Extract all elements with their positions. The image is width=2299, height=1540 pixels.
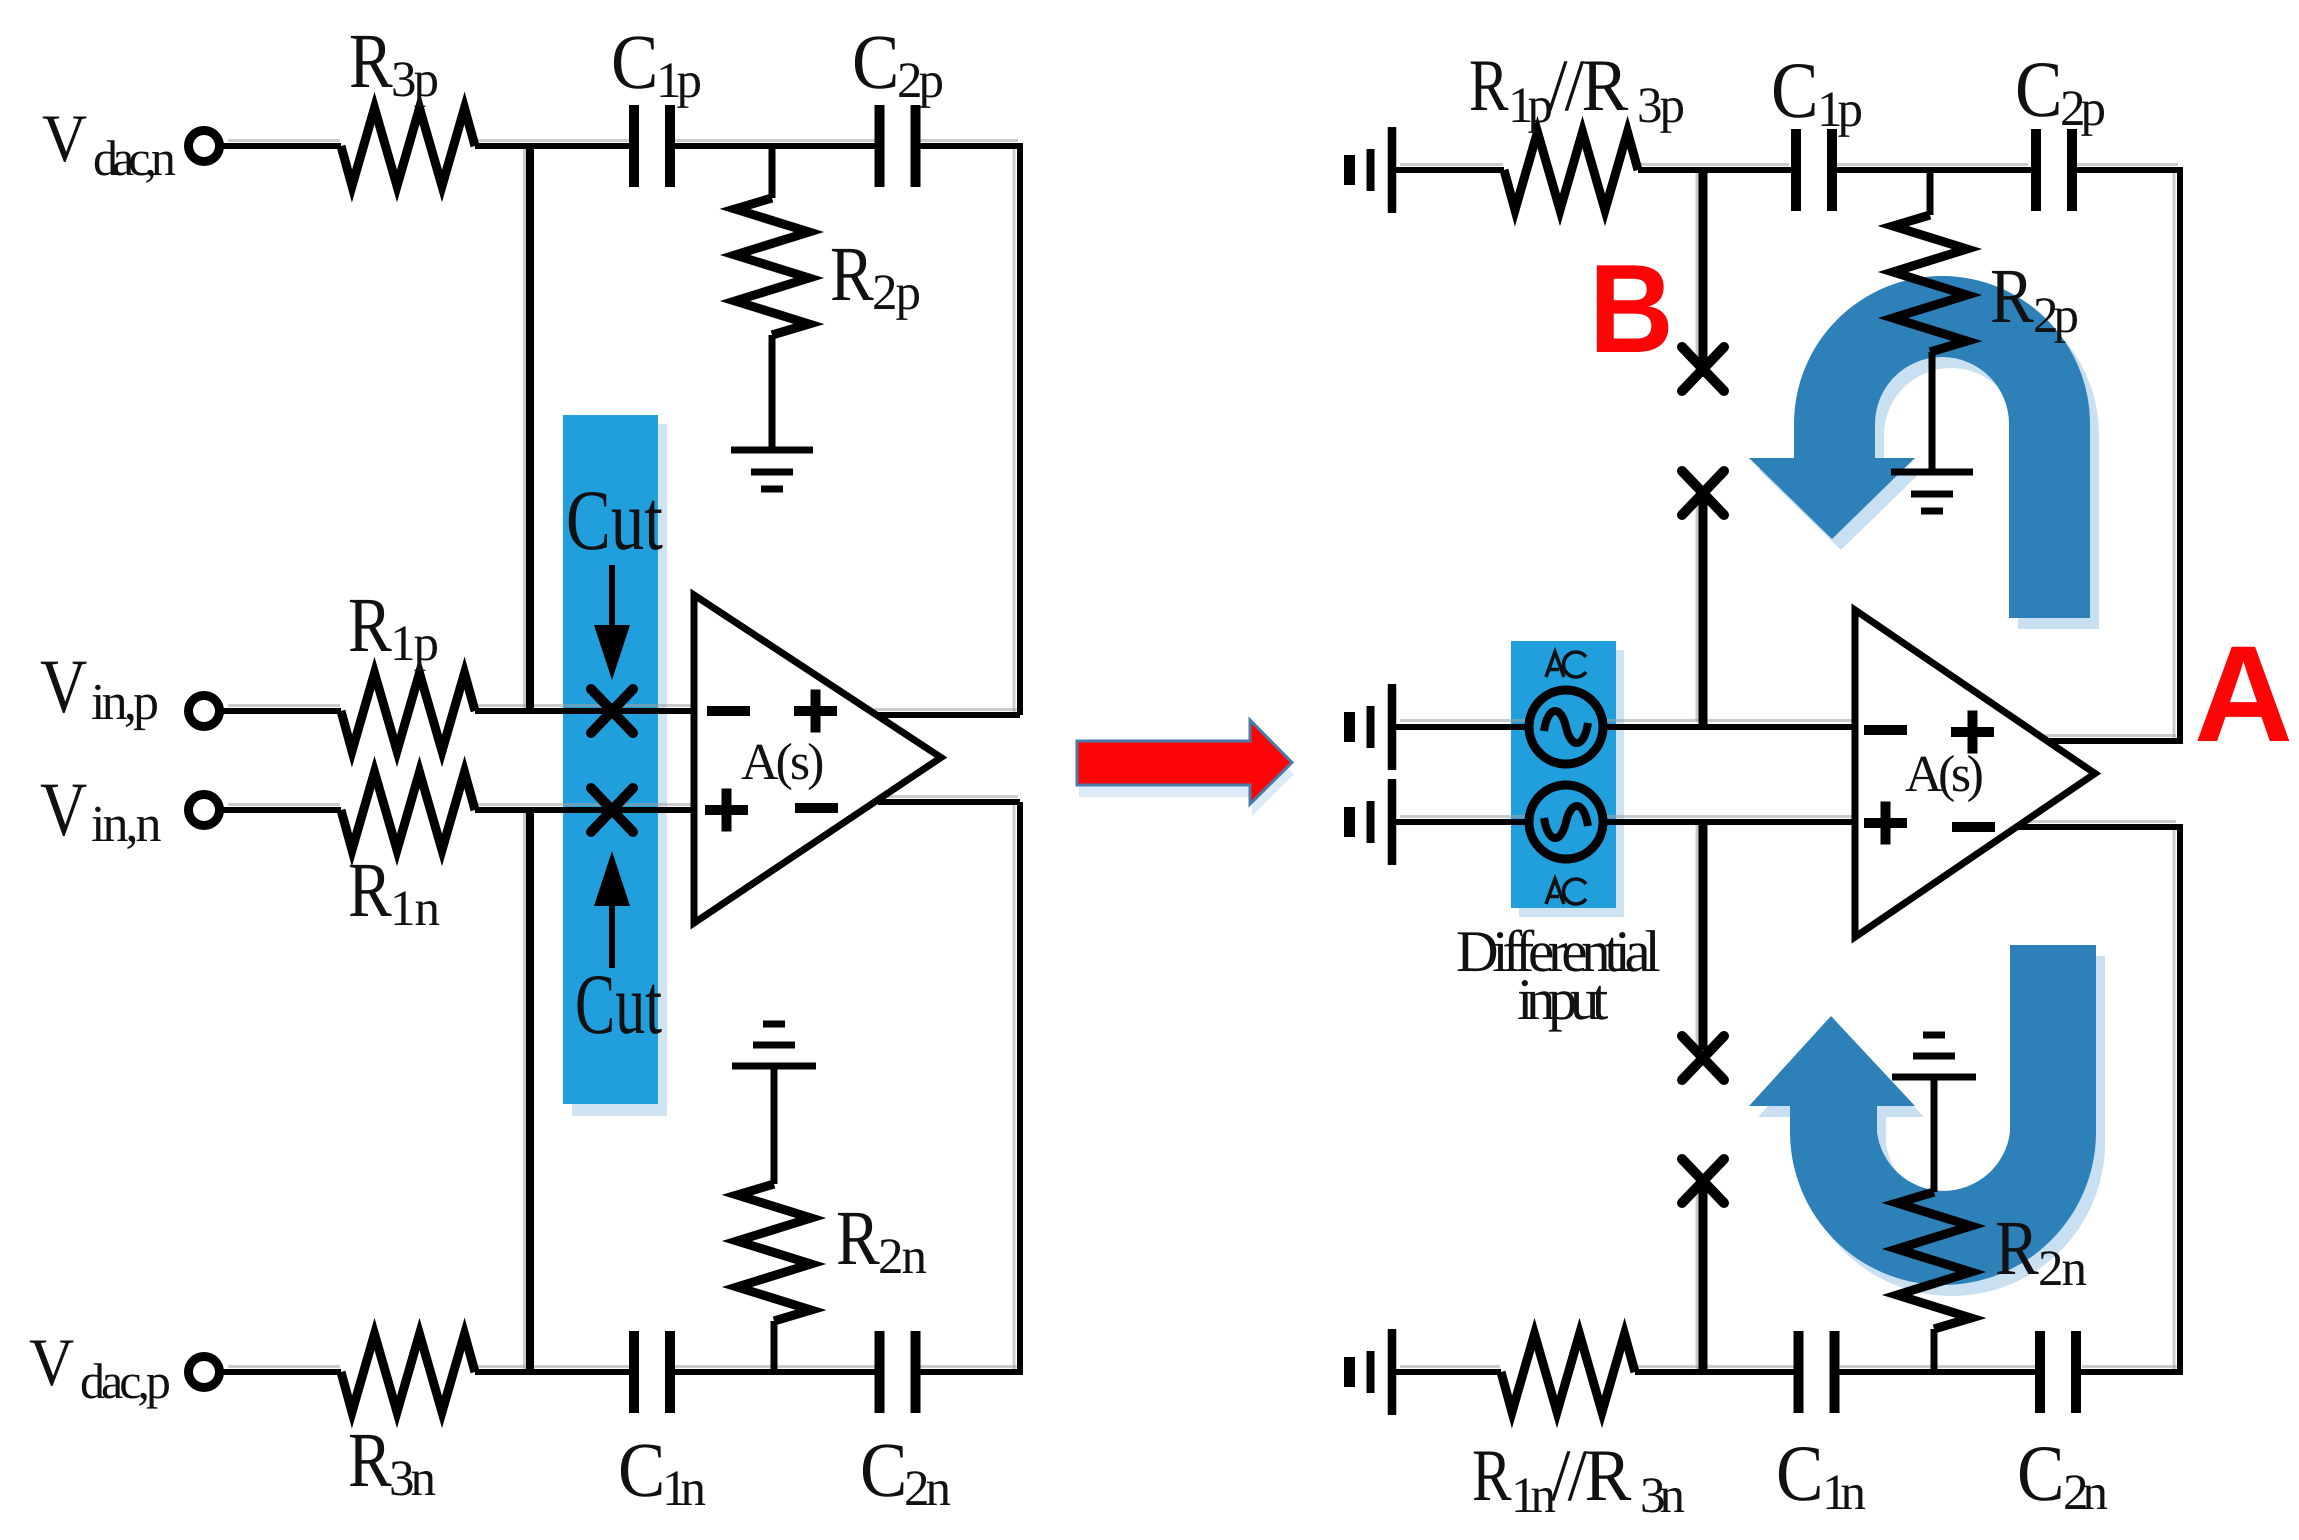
svg-text:A: A: [2194, 618, 2293, 771]
svg-text:R: R: [1990, 252, 2034, 339]
svg-text://R: //R: [1548, 45, 1629, 127]
svg-text:2n: 2n: [878, 1229, 927, 1285]
svg-text:1n: 1n: [1822, 1465, 1866, 1521]
svg-text:R: R: [1472, 1435, 1512, 1517]
svg-text:R: R: [348, 1416, 392, 1503]
svg-text:1p: 1p: [1508, 78, 1552, 134]
svg-text:1n: 1n: [390, 881, 440, 937]
svg-text:V: V: [40, 643, 87, 729]
svg-text:3p: 3p: [1637, 78, 1684, 134]
svg-text:2n: 2n: [2038, 1241, 2087, 1297]
svg-text:Cut: Cut: [575, 956, 662, 1052]
svg-text:V: V: [42, 100, 87, 176]
svg-text:Cut: Cut: [566, 472, 663, 568]
svg-text://R: //R: [1551, 1435, 1632, 1517]
svg-text:3n: 3n: [1640, 1468, 1685, 1524]
svg-text:2p: 2p: [2033, 288, 2078, 344]
svg-text:R: R: [349, 17, 393, 104]
svg-text:C: C: [2017, 1430, 2064, 1518]
svg-text:1p: 1p: [1817, 82, 1862, 138]
svg-text:3p: 3p: [391, 52, 438, 108]
svg-text:C: C: [860, 1426, 907, 1513]
svg-text:C: C: [611, 18, 658, 105]
svg-text:3n: 3n: [389, 1451, 436, 1507]
svg-text:2p: 2p: [897, 53, 943, 109]
svg-text:R: R: [830, 230, 874, 317]
svg-text:A(s): A(s): [741, 734, 823, 791]
svg-text:B: B: [1589, 238, 1674, 379]
svg-text:R: R: [836, 1194, 880, 1281]
svg-text:dac,p: dac,p: [80, 1353, 170, 1409]
svg-text:R: R: [348, 581, 392, 668]
svg-text:C: C: [618, 1426, 665, 1513]
svg-text:dac,n: dac,n: [93, 130, 176, 186]
svg-text:in,n: in,n: [91, 796, 161, 853]
svg-text:1n: 1n: [1511, 1468, 1556, 1524]
svg-text:R: R: [348, 846, 392, 933]
svg-text:C: C: [1771, 47, 1818, 135]
svg-text:R: R: [1995, 1204, 2039, 1291]
svg-text:R: R: [1469, 45, 1509, 127]
svg-text:input: input: [1517, 966, 1609, 1032]
svg-text:1p: 1p: [656, 53, 701, 109]
svg-text:C: C: [852, 18, 899, 105]
svg-text:2p: 2p: [872, 265, 920, 321]
svg-text:V: V: [29, 1324, 74, 1400]
svg-text:C: C: [2015, 46, 2062, 134]
svg-text:2p: 2p: [2060, 81, 2105, 137]
svg-text:2n: 2n: [904, 1461, 951, 1517]
svg-text:1p: 1p: [390, 616, 438, 672]
svg-text:V: V: [40, 766, 87, 852]
svg-text:C: C: [1776, 1430, 1823, 1518]
svg-text:in,p: in,p: [91, 674, 157, 731]
svg-text:2n: 2n: [2063, 1465, 2108, 1521]
svg-text:1n: 1n: [662, 1461, 706, 1517]
svg-text:A(s): A(s): [1905, 746, 1983, 803]
